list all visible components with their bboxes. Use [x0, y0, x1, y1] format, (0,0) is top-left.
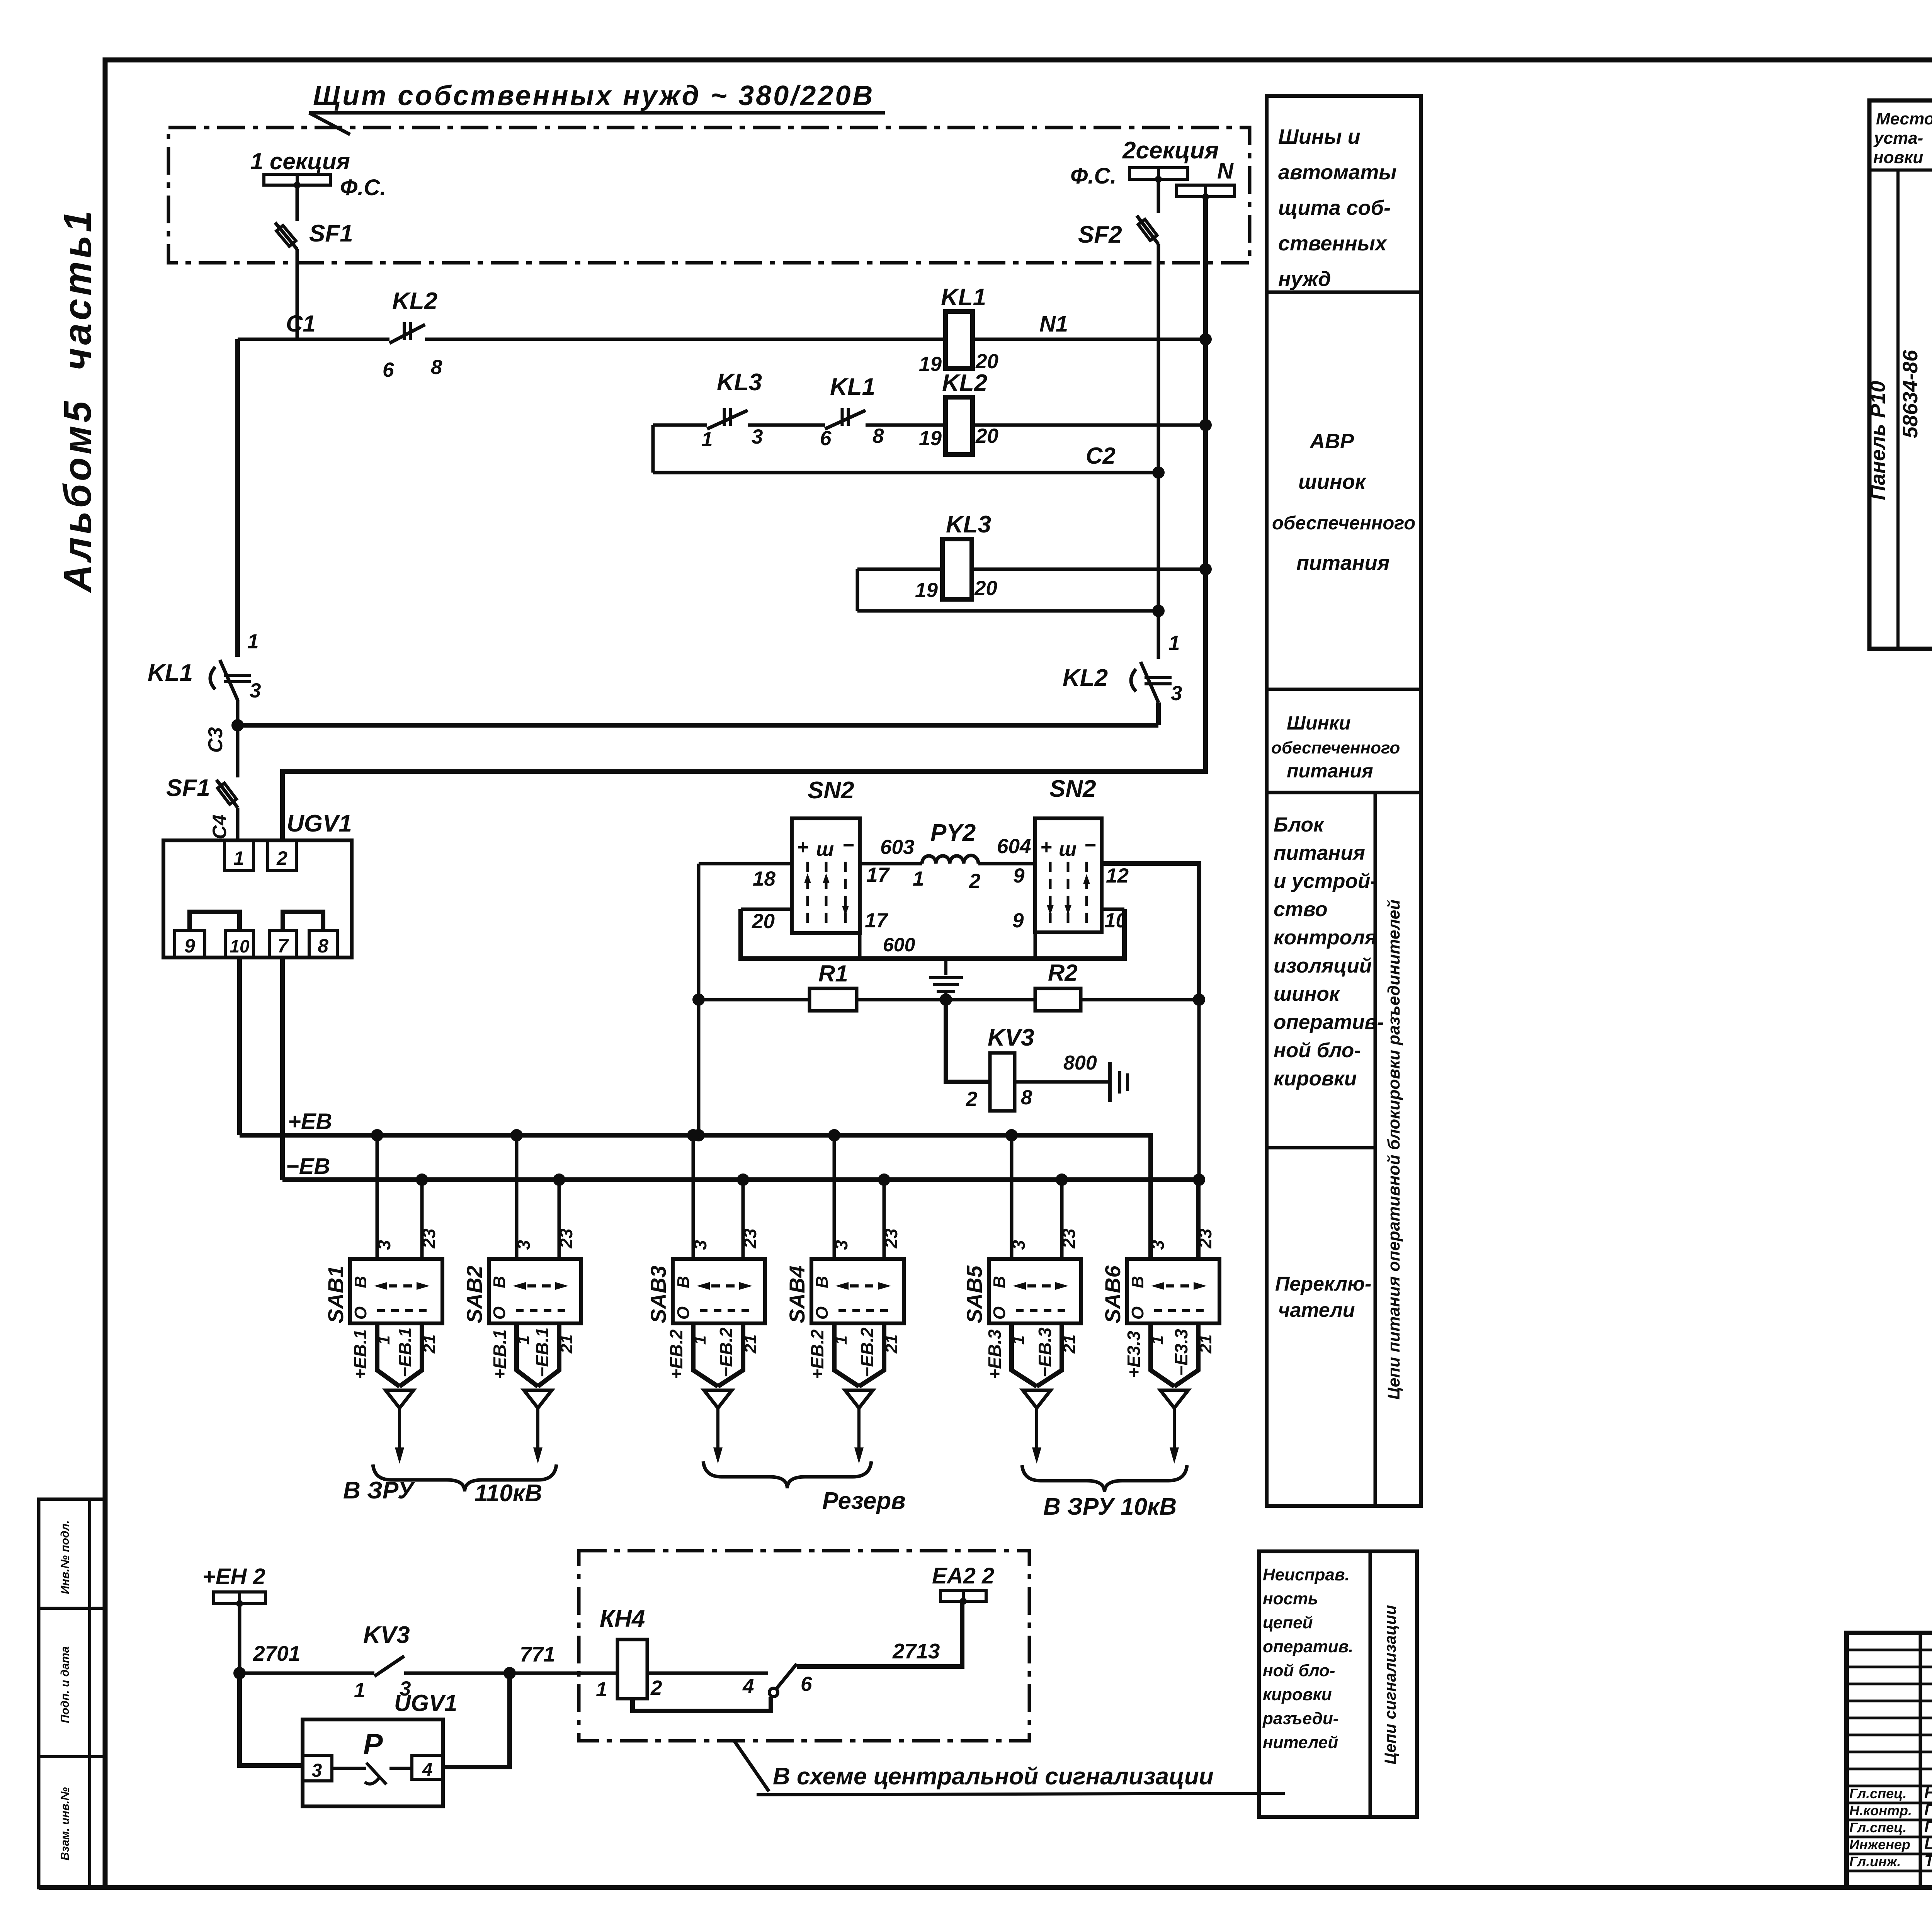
svg-text:R1: R1: [818, 961, 848, 986]
svg-text:9: 9: [1012, 909, 1024, 932]
svg-text:КН4: КН4: [600, 1605, 645, 1632]
switch SAB2: [489, 1259, 581, 1323]
svg-text:18: 18: [753, 867, 776, 890]
svg-text:2: 2: [276, 847, 287, 869]
svg-text:питания: питания: [1287, 760, 1373, 782]
P block pin 4: [412, 1755, 443, 1779]
UGV1 pin 1: [224, 840, 253, 871]
svg-text:и устрой-: и устрой-: [1274, 870, 1377, 893]
UGV1 pin 8: [309, 930, 337, 957]
wire ground to R-row: [944, 993, 947, 1000]
switch SAB5: [989, 1259, 1081, 1323]
node left vertical x R-row: [692, 993, 705, 1006]
wire KH4 bottom loop: [633, 1697, 771, 1711]
svg-text:SAB2: SAB2: [462, 1265, 486, 1323]
svg-text:17: 17: [866, 864, 890, 886]
svg-text:ность: ность: [1263, 1589, 1318, 1608]
svg-text:ш: ш: [1059, 838, 1077, 861]
busbar +ЕН2: [214, 1592, 240, 1604]
svg-text:UGV1: UGV1: [394, 1690, 457, 1716]
wire 771 down to P block: [443, 1673, 510, 1767]
svg-text:С4: С4: [209, 815, 230, 839]
svg-text:110кВ: 110кВ: [474, 1480, 542, 1507]
wire C1 corner down to KL1 contact: [235, 339, 240, 657]
wire 2713 row: [797, 1601, 962, 1667]
svg-text:KV3: KV3: [363, 1622, 410, 1648]
svg-text:+ЕВ.2: +ЕВ.2: [807, 1329, 827, 1379]
svg-text:контроля: контроля: [1274, 926, 1377, 949]
switch SAB1: [350, 1259, 442, 1323]
svg-text:10: 10: [230, 936, 250, 956]
wire to KH4 coil: [579, 1672, 617, 1675]
svg-text:58634-86: 58634-86: [1899, 350, 1922, 438]
svg-text:SN2: SN2: [1049, 776, 1096, 802]
svg-text:В: В: [1128, 1276, 1147, 1288]
arrow SAB3 output: [704, 1390, 732, 1408]
wire KL1 contact to C3: [236, 700, 240, 725]
svg-text:Щит собственных нужд ~ 380/220: Щит собственных нужд ~ 380/220В: [313, 80, 874, 111]
dash-dot enclosure: КН4 box: [579, 1551, 1029, 1741]
contact KL1 (left vertical, pins 1-3): [220, 660, 238, 700]
breaker SF2: [1137, 216, 1158, 244]
node 771: [503, 1667, 516, 1679]
wire +EB drop to SAB1 pin3: [376, 1135, 379, 1259]
svg-text:8: 8: [1021, 1086, 1032, 1109]
svg-text:KL1: KL1: [148, 660, 193, 686]
svg-text:Подп. и дата: Подп. и дата: [59, 1646, 71, 1723]
brace group SAB1-SAB2: [373, 1464, 556, 1492]
svg-text:PY2: PY2: [930, 820, 976, 846]
svg-text:В ЗРУ 10кВ: В ЗРУ 10кВ: [1043, 1493, 1177, 1520]
svg-text:23: 23: [419, 1228, 439, 1249]
svg-text:3: 3: [690, 1240, 710, 1250]
busbar ЕА22: [940, 1590, 963, 1601]
svg-text:23: 23: [556, 1228, 576, 1249]
svg-text:17: 17: [865, 909, 888, 932]
svg-text:23: 23: [740, 1228, 760, 1249]
svg-text:оператив.: оператив.: [1263, 1637, 1353, 1656]
svg-text:+ЕВ.2: +ЕВ.2: [666, 1329, 686, 1379]
svg-text:Гл.инж.: Гл.инж.: [1849, 1854, 1901, 1869]
svg-text:8: 8: [318, 935, 328, 957]
breaker SF1 (top): [275, 223, 297, 249]
node N x row2: [1199, 419, 1212, 431]
svg-text:−Е3.3: −Е3.3: [1171, 1329, 1191, 1376]
svg-text:1: 1: [701, 428, 713, 451]
svg-text:KL2: KL2: [942, 370, 987, 396]
node 2701 branch: [233, 1667, 246, 1679]
node left vertical x +EB: [692, 1129, 705, 1141]
wire SF1 to C1 row: [296, 249, 299, 339]
svg-text:В: В: [490, 1276, 509, 1288]
svg-text:разъеди-: разъеди-: [1262, 1709, 1338, 1728]
svg-text:−ЕВ.1: −ЕВ.1: [532, 1327, 552, 1377]
svg-text:+: +: [1040, 836, 1052, 859]
wire KV3 branch: [946, 1000, 990, 1082]
UGV1 internal link 7-8: [283, 912, 323, 930]
wire +EB drop to SAB2 pin3: [515, 1135, 519, 1259]
busbar N: [1177, 185, 1206, 197]
wire C1-N1 row: [238, 338, 389, 341]
svg-text:6: 6: [801, 1673, 812, 1696]
svg-text:+ЕВ.3: +ЕВ.3: [985, 1329, 1005, 1379]
wire row2 left bracket: [651, 425, 655, 473]
svg-text:2: 2: [650, 1677, 662, 1699]
stub SN2L pin17 to bus600: [858, 933, 862, 959]
svg-text:оператив-: оператив-: [1274, 1011, 1384, 1034]
svg-text:ной бло-: ной бло-: [1274, 1039, 1361, 1062]
svg-text:7: 7: [277, 935, 289, 957]
svg-text:1: 1: [354, 1679, 365, 1702]
svg-text:UGV1: UGV1: [287, 810, 352, 837]
svg-text:1: 1: [1168, 632, 1180, 655]
svg-text:АВР: АВР: [1309, 430, 1354, 453]
svg-text:В: В: [674, 1276, 693, 1288]
switch SAB3: [673, 1259, 765, 1323]
wire PY2 to SN2R: [978, 862, 1035, 866]
wire KH4 to contact: [647, 1672, 768, 1675]
svg-text:Цветкова: Цветкова: [1924, 1835, 1932, 1853]
svg-text:Горелик: Горелик: [1924, 1818, 1932, 1836]
wire KL3 row bottom return: [857, 609, 1158, 613]
stub SN2R pin9 to bus600: [1034, 932, 1037, 959]
svg-text:KL1: KL1: [941, 284, 986, 311]
relay coil KL3: [942, 539, 972, 599]
svg-text:О: О: [1128, 1306, 1147, 1320]
svg-text:В: В: [351, 1276, 370, 1288]
wire SAB5 output V: [1012, 1323, 1037, 1386]
switch SN2 (right block): [1035, 818, 1102, 932]
svg-text:600: 600: [883, 934, 915, 956]
arrow SAB2 output: [524, 1390, 552, 1408]
svg-text:уста-: уста-: [1873, 129, 1923, 148]
wire SAB4 output V: [834, 1323, 859, 1386]
svg-text:обеспеченного: обеспеченного: [1272, 513, 1415, 534]
svg-text:+ЕВ: +ЕВ: [288, 1109, 332, 1134]
bus600 link to SN2R side: [1102, 908, 1124, 911]
svg-text:771: 771: [520, 1642, 555, 1666]
svg-text:SAB1: SAB1: [323, 1265, 348, 1323]
svg-text:−ЕВ.2: −ЕВ.2: [716, 1327, 736, 1378]
svg-text:кировки: кировки: [1263, 1685, 1332, 1704]
breaker SF1 (bottom): [216, 780, 238, 808]
svg-text:6: 6: [820, 427, 832, 450]
wire -EB drop to SAB3 pin23: [742, 1180, 745, 1259]
svg-text:2: 2: [969, 870, 980, 893]
svg-text:SF1: SF1: [166, 775, 210, 801]
bus 600 bottom loop: [741, 909, 1124, 959]
svg-text:Резерв: Резерв: [822, 1488, 906, 1514]
svg-text:Переклю-: Переклю-: [1275, 1273, 1371, 1295]
svg-text:20: 20: [975, 425, 998, 447]
svg-text:1: 1: [596, 1678, 607, 1701]
svg-text:+ЕН 2: +ЕН 2: [202, 1564, 265, 1589]
svg-text:4: 4: [422, 1760, 433, 1780]
wire KV3 to 800 terminal: [1015, 1080, 1110, 1084]
node R-row x KV3 branch: [940, 993, 952, 1006]
svg-text:1: 1: [233, 847, 244, 869]
wire SF1 to UGV1 pin1: [236, 808, 240, 840]
contact KL2 (right vertical, pins 1-3): [1141, 662, 1158, 702]
wire -EB drop to SAB4 pin23: [883, 1180, 886, 1259]
UGV1 internal link 9-10: [190, 912, 240, 930]
svg-text:Инженер: Инженер: [1849, 1837, 1910, 1852]
brace group SAB3-SAB4: [703, 1461, 871, 1488]
P block pin 3: [303, 1755, 332, 1781]
node N x N1: [1199, 333, 1212, 345]
svg-text:KL3: KL3: [946, 511, 991, 538]
title block outline: [1847, 1633, 1932, 1888]
svg-text:1: 1: [247, 630, 259, 653]
svg-text:3: 3: [831, 1240, 851, 1250]
svg-text:+Е3.3: +Е3.3: [1124, 1331, 1144, 1378]
node ФС x KL3-row: [1152, 605, 1165, 617]
svg-text:N1: N1: [1039, 311, 1068, 337]
wire SAB1 output V: [377, 1323, 400, 1386]
wire assembly left vertical: [697, 864, 701, 1135]
svg-text:SAB3: SAB3: [646, 1265, 670, 1323]
arrow SAB4 output: [845, 1390, 873, 1408]
svg-text:Инв.№ подл.: Инв.№ подл.: [59, 1520, 71, 1594]
arrow SAB1 output: [386, 1390, 413, 1408]
svg-text:изоляций: изоляций: [1274, 954, 1372, 977]
svg-text:3: 3: [514, 1240, 534, 1250]
node C3: [231, 719, 244, 731]
svg-text:6: 6: [383, 359, 394, 381]
svg-text:KL1: KL1: [830, 374, 875, 400]
svg-text:Ф.С.: Ф.С.: [340, 175, 386, 200]
wire -EB bus: [282, 1180, 1198, 1259]
wire KL2 contact to C3 corner: [1156, 702, 1161, 725]
svg-text:−ЕВ: −ЕВ: [286, 1154, 330, 1179]
svg-text:ш: ш: [816, 838, 834, 861]
svg-text:KL3: KL3: [717, 369, 762, 396]
svg-text:питания: питания: [1296, 551, 1389, 575]
node right vertical x -EB: [1193, 1173, 1205, 1186]
svg-text:Тимофеева: Тимофеева: [1924, 1852, 1932, 1870]
svg-text:В схеме центральной сигнализац: В схеме центральной сигнализации: [773, 1763, 1214, 1790]
svg-text:Шины и: Шины и: [1278, 125, 1361, 148]
svg-text:Цепи питания оперативной блоки: Цепи питания оперативной блокировки разъ…: [1384, 900, 1403, 1400]
svg-text:−: −: [842, 834, 854, 857]
svg-text:С1: С1: [286, 311, 316, 337]
UGV1 pin 7: [269, 930, 296, 957]
svg-text:SN2: SN2: [808, 777, 854, 804]
wire C3 node down to SF1 bottom: [236, 725, 240, 777]
svg-text:В ЗРУ: В ЗРУ: [343, 1477, 415, 1504]
svg-text:Годелик: Годелик: [1924, 1801, 1932, 1819]
wire right vertical to -EB: [1197, 1000, 1201, 1180]
svg-text:В: В: [813, 1276, 832, 1288]
svg-text:+ЕВ.1: +ЕВ.1: [350, 1329, 370, 1379]
left stamp strip: [39, 1499, 105, 1888]
wire UGV1 pin7 to -EB: [280, 957, 285, 1180]
svg-text:SF2: SF2: [1078, 221, 1122, 248]
svg-text:ЕА2 2: ЕА2 2: [932, 1563, 994, 1588]
wire +EB drop to SAB4 pin3: [833, 1135, 836, 1259]
svg-text:KL2: KL2: [1063, 665, 1108, 691]
wire UGV1 pin10 to +EB: [237, 957, 242, 1135]
svg-text:23: 23: [1059, 1228, 1079, 1249]
svg-text:кировки: кировки: [1274, 1067, 1357, 1090]
wire +EB drop to SAB5 pin3: [1010, 1135, 1014, 1259]
terminal bar 800: [1108, 1062, 1112, 1102]
svg-text:Ф.С.: Ф.С.: [1070, 163, 1116, 189]
contact KL3 (row2, pins 1-3): [707, 410, 748, 429]
contact KV3 (row 2701-771): [374, 1656, 404, 1676]
resistor R1: [810, 988, 857, 1011]
svg-text:3: 3: [1009, 1240, 1029, 1250]
net-name column strip: [1267, 96, 1421, 1506]
svg-text:KL2: KL2: [392, 288, 437, 315]
svg-text:В: В: [990, 1276, 1009, 1288]
svg-text:SAB4: SAB4: [785, 1265, 809, 1323]
svg-text:Неисправ.: Неисправ.: [1263, 1565, 1350, 1584]
resistor R2: [1035, 988, 1081, 1011]
wire N vertical: [282, 197, 1206, 840]
svg-text:3: 3: [374, 1240, 394, 1250]
wire KL3 coil row: [857, 568, 942, 571]
svg-text:2: 2: [966, 1088, 977, 1111]
wire KL3 row left bracket: [856, 569, 859, 611]
wire ЕН2 down: [238, 1604, 241, 1673]
svg-text:шинок: шинок: [1274, 983, 1341, 1005]
svg-text:19: 19: [915, 579, 938, 602]
svg-text:1 секция: 1 секция: [250, 148, 350, 174]
table grid: [1869, 100, 1932, 649]
svg-text:нужд: нужд: [1278, 267, 1331, 291]
svg-text:Р: Р: [363, 1728, 383, 1761]
svg-text:2секция: 2секция: [1122, 137, 1219, 164]
leader to central signalling note: [734, 1741, 769, 1791]
svg-text:О: О: [351, 1306, 370, 1320]
svg-text:4: 4: [742, 1675, 754, 1698]
svg-text:−: −: [1084, 834, 1096, 857]
wire 771 row: [404, 1672, 579, 1675]
svg-text:19: 19: [919, 353, 942, 376]
switch SN2 (left block): [792, 818, 860, 933]
svg-text:604: 604: [997, 835, 1031, 858]
dash-dot enclosure: щит собственных нужд: [168, 128, 1250, 263]
arrow SAB6 output: [1160, 1390, 1188, 1408]
svg-text:3: 3: [1148, 1240, 1168, 1250]
svg-text:Никитин: Никитин: [1924, 1784, 1932, 1802]
svg-text:800: 800: [1063, 1052, 1097, 1074]
wire R-row: [699, 998, 810, 1002]
relay coil KV3: [990, 1053, 1015, 1111]
svg-text:19: 19: [919, 427, 942, 450]
svg-text:+: +: [797, 836, 808, 859]
svg-text:С3: С3: [204, 727, 227, 753]
wire assembly top run: [699, 862, 792, 866]
voltmeter PY2 coil: [922, 855, 978, 864]
svg-text:KV3: KV3: [988, 1024, 1034, 1051]
power unit UGV1 (P block): [303, 1719, 443, 1806]
svg-text:20: 20: [752, 910, 775, 933]
wire -EB drop to SAB5 pin23: [1060, 1180, 1064, 1259]
contact KL1 (row2, pins 6-8): [825, 410, 866, 429]
busbar 1 секция Ф.С.: [264, 174, 297, 185]
wire -EB drop to SAB2 pin23: [558, 1180, 561, 1259]
svg-text:R2: R2: [1048, 960, 1078, 986]
wire SN2L to PY2: [860, 862, 922, 866]
signature table grid: [1919, 1633, 1922, 1888]
relay coil KH4: [617, 1639, 647, 1699]
relay coil KL1: [946, 311, 973, 369]
svg-text:Цепи сигнализации: Цепи сигнализации: [1381, 1605, 1399, 1765]
UGV1 pin 2: [268, 840, 296, 871]
svg-text:9: 9: [1013, 864, 1025, 887]
wire ЕН2 vertical to P pin3: [240, 1673, 303, 1765]
svg-text:8: 8: [872, 425, 884, 447]
node ФС x C2: [1152, 466, 1165, 479]
svg-text:О: О: [490, 1306, 509, 1320]
svg-text:О: О: [813, 1306, 832, 1320]
brace group SAB5-SAB6: [1022, 1465, 1187, 1492]
wire SAB3 output V: [693, 1323, 718, 1386]
svg-text:Альбом5 часть1: Альбом5 часть1: [56, 207, 99, 593]
UGV1 pin 9: [175, 930, 205, 957]
svg-text:Взам. инв.№: Взам. инв.№: [59, 1787, 71, 1861]
wire -EB drop to SAB1 pin23: [420, 1180, 424, 1259]
wire row2 (KL3,KL1 contacts, KL2 coil): [653, 423, 707, 427]
svg-text:−ЕВ.1: −ЕВ.1: [395, 1327, 415, 1377]
wire SAB2 output V: [517, 1323, 538, 1386]
wire ФС busbar to SF2: [1157, 179, 1160, 213]
svg-text:3: 3: [1171, 682, 1182, 705]
svg-text:цепей: цепей: [1263, 1613, 1313, 1632]
svg-text:чатели: чатели: [1278, 1299, 1355, 1321]
wire +EB bus: [240, 1135, 1151, 1259]
wire C2 row: [653, 471, 1158, 474]
svg-text:SAB5: SAB5: [962, 1265, 986, 1323]
svg-text:23: 23: [1195, 1228, 1215, 1249]
wire SN2R to right corner: [1102, 864, 1199, 1000]
svg-text:−ЕВ.3: −ЕВ.3: [1035, 1327, 1055, 1378]
svg-text:новки: новки: [1873, 148, 1923, 167]
svg-text:обеспеченного: обеспеченного: [1271, 738, 1400, 757]
svg-text:Панель Р10: Панель Р10: [1866, 381, 1889, 500]
svg-text:3: 3: [752, 425, 763, 448]
svg-text:питания: питания: [1274, 842, 1365, 864]
svg-text:О: О: [990, 1306, 1009, 1320]
svg-text:+ЕВ.1: +ЕВ.1: [490, 1329, 510, 1379]
relay coil KL2: [946, 397, 973, 454]
svg-text:9: 9: [184, 935, 195, 957]
svg-text:N: N: [1217, 158, 1234, 184]
wire from 1секция busbar to SF1: [296, 185, 299, 221]
svg-text:SF1: SF1: [309, 220, 353, 247]
power supply UGV1: [163, 840, 352, 957]
svg-text:автоматы: автоматы: [1278, 161, 1396, 184]
bus600 link to SN2L side: [741, 908, 792, 911]
svg-text:ственных: ственных: [1278, 232, 1388, 255]
wire +EB drop to SAB3 pin3: [692, 1135, 695, 1259]
svg-text:Шинки: Шинки: [1287, 712, 1351, 734]
svg-text:С2: С2: [1086, 443, 1116, 469]
switch SAB4: [811, 1259, 904, 1323]
contact KL2 (row1, pins 6-8): [389, 325, 425, 343]
svg-text:Место: Место: [1876, 109, 1932, 128]
svg-text:3: 3: [312, 1760, 322, 1781]
UGV1 pin 10: [225, 930, 253, 957]
fault box: Неисправность цепей оперативной блокировки разъединителей: [1259, 1551, 1417, 1817]
svg-text:−ЕВ.2: −ЕВ.2: [857, 1327, 877, 1378]
svg-text:ство: ство: [1274, 898, 1328, 921]
node right vertical x R-row: [1193, 993, 1205, 1006]
wire C3 row: [238, 723, 1158, 728]
svg-text:2713: 2713: [892, 1639, 940, 1663]
